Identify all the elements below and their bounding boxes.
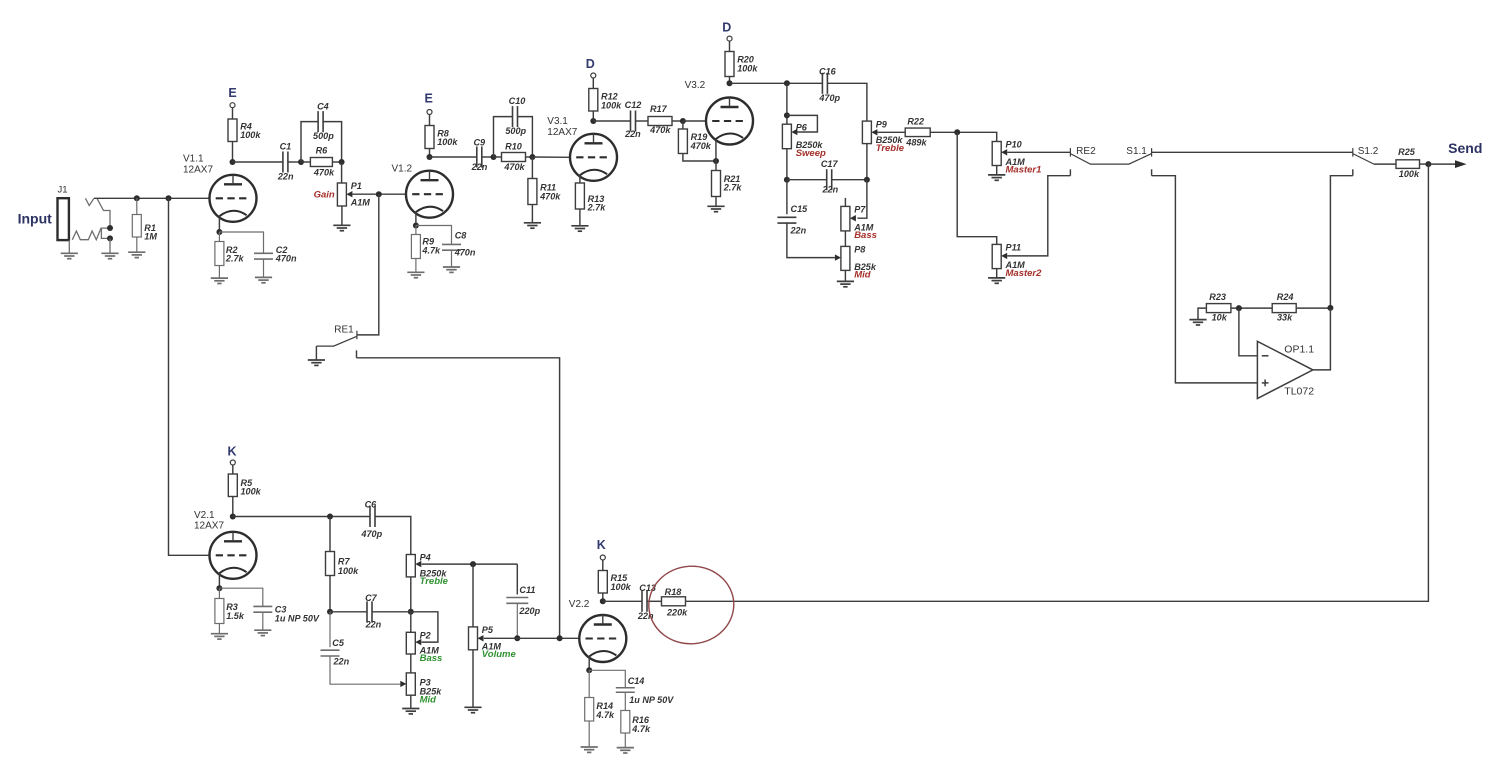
capacitor C10 [513, 106, 518, 127]
svg-text:Master1: Master1 [1006, 165, 1042, 176]
wire C2 to ground [263, 259, 265, 277]
resistor R5 [228, 474, 261, 497]
supply label K [227, 445, 236, 459]
capacitor C11 [506, 598, 528, 604]
wire R1 top lead [136, 198, 138, 214]
wire C17 to P9 bottom net [832, 179, 867, 181]
wire node to V3.1 grid [532, 156, 570, 158]
wire P9 wiper to R22 [877, 131, 905, 133]
potentiometer P1 [337, 181, 370, 207]
svg-text:100k: 100k [737, 63, 758, 73]
resistor R21 [712, 171, 743, 197]
node R17 out [680, 118, 686, 124]
wire volume net corner down to C11 [516, 564, 518, 594]
wire cathode to C14 [589, 670, 625, 687]
svg-text:C7: C7 [365, 593, 378, 603]
svg-text:RE2: RE2 [1076, 146, 1096, 157]
terminal K supply V2.2 [600, 555, 605, 560]
node V1.2 cathode [413, 223, 419, 229]
capacitor C3 [253, 606, 272, 612]
svg-text:RE1: RE1 [334, 324, 354, 335]
resistor R11 [528, 179, 561, 205]
wire C4 bridge left [301, 122, 318, 162]
svg-text:V3.2: V3.2 [685, 80, 706, 91]
resistor R12 [589, 89, 622, 112]
wire C14 to R16 [624, 692, 626, 710]
svg-text:100k: 100k [437, 137, 458, 147]
terminal E supply V1.1 [230, 103, 235, 108]
svg-text:C15: C15 [791, 204, 809, 214]
node send [1425, 161, 1431, 167]
svg-text:Mid: Mid [420, 694, 437, 705]
wire C3 to ground [262, 612, 264, 630]
potentiometer P9 [862, 119, 904, 154]
wire jack switch to ground [109, 238, 111, 253]
svg-text:Sweep: Sweep [796, 148, 826, 159]
wire cathode to C8 [416, 226, 452, 245]
svg-text:P5: P5 [482, 625, 494, 635]
wire feedback to inverting input [1239, 308, 1258, 356]
supply label E [228, 86, 236, 100]
op-amp plus sign [1262, 380, 1269, 387]
svg-text:R10: R10 [505, 142, 522, 152]
switch RE1 contact tick [356, 331, 358, 340]
wire K to R15 [602, 560, 604, 571]
potentiometer P3 [406, 673, 442, 706]
wire R1 bottom lead [136, 237, 138, 252]
wire P5 bottom to ground [472, 650, 474, 707]
svg-text:22n: 22n [624, 129, 641, 139]
wire C13 to R18 [647, 600, 662, 602]
svg-text:K: K [227, 445, 236, 459]
node jack switch A [107, 225, 113, 231]
wire input main [94, 197, 210, 199]
terminal D supply V3.2 [727, 36, 732, 41]
svg-text:V2.1: V2.1 [194, 510, 215, 521]
ground R2 [211, 278, 228, 283]
svg-text:Input: Input [18, 211, 53, 227]
svg-text:22n: 22n [277, 172, 294, 182]
highlight ellipse around R18 [646, 563, 736, 646]
ground R14 [581, 747, 598, 752]
switch RE1 open throw stub [356, 350, 358, 357]
wire R13 to ground [579, 209, 581, 226]
svg-text:R7: R7 [338, 557, 351, 567]
triode tube V1.1 [210, 175, 257, 222]
switch S1.1 contact tick [1151, 148, 1153, 157]
svg-text:500p: 500p [505, 126, 526, 136]
svg-text:C16: C16 [819, 67, 837, 77]
svg-text:A1M: A1M [350, 198, 371, 208]
wire P8 bottom to ground [844, 270, 846, 281]
wire S1.2 to R25 [1374, 163, 1396, 165]
wire R12 to plate node [592, 111, 594, 121]
wire node to R6 [301, 161, 310, 163]
wire C11 to grid line [516, 603, 518, 638]
wire P4 bottom to node [410, 577, 412, 612]
triode tube V1.2 [406, 171, 453, 218]
svg-text:C4: C4 [317, 101, 329, 111]
svg-text:2.7k: 2.7k [587, 202, 607, 212]
svg-text:Treble: Treble [876, 143, 905, 154]
wire plate to tone stack top [730, 82, 823, 84]
wire R23 to R24 [1231, 307, 1272, 309]
wire node to C7 [330, 611, 367, 613]
svg-text:100k: 100k [1399, 169, 1420, 179]
switch RE1 blade [316, 336, 357, 346]
svg-text:22n: 22n [821, 185, 838, 195]
wire plate node to C13 [603, 600, 642, 602]
svg-text:R23: R23 [1209, 292, 1226, 302]
supply label K 2 [597, 538, 606, 552]
resistor R16 [621, 711, 651, 734]
svg-text:P9: P9 [876, 119, 888, 129]
resistor R24 [1272, 292, 1296, 323]
wire R14 to ground [588, 721, 590, 747]
node V1.1 plate [230, 159, 236, 165]
capacitor C8 [442, 244, 461, 250]
wire R8 to plate node [429, 149, 431, 158]
svg-text:12AX7: 12AX7 [194, 520, 224, 531]
wire R17 to node [672, 120, 683, 122]
wire R21 to ground [715, 197, 717, 207]
ground C8 [443, 267, 460, 272]
node bass net low [408, 609, 414, 615]
svg-text:220p: 220p [518, 606, 540, 616]
op-amp OP1.1 TL072 [1257, 341, 1313, 398]
wire R3 to ground [218, 624, 220, 634]
wire cathode to R2 [218, 232, 220, 242]
svg-text:R18: R18 [665, 587, 683, 597]
svg-text:470k: 470k [690, 141, 712, 151]
wire V1.1 cathode lead [218, 216, 220, 232]
label RE1 [334, 324, 354, 335]
wire P2 bottom to P3 top [410, 654, 412, 673]
ground R3 [211, 634, 228, 639]
wire send arrow [1428, 163, 1456, 165]
terminal K supply V2.1 [230, 460, 235, 465]
potentiometer P4 [406, 553, 448, 587]
node V3.2 cathode net [713, 158, 719, 164]
triode tube V2.2 [579, 615, 626, 662]
wire R2 to ground [218, 266, 220, 279]
resistor R22 [905, 116, 930, 147]
node R10 out [529, 154, 535, 160]
J1 tip contact [85, 198, 94, 205]
svg-text:Send: Send [1448, 140, 1482, 156]
terminal E supply V1.2 [427, 110, 432, 115]
wire R20 to plate node [729, 77, 731, 84]
svg-text:P1: P1 [351, 181, 362, 191]
wire S1.1 throw to op-amp noninverting input [1152, 176, 1258, 383]
capacitor C5 [321, 650, 340, 656]
ground P1 [333, 225, 350, 230]
svg-text:P6: P6 [796, 122, 808, 132]
switch RE2 throw stub [1069, 169, 1071, 175]
node bass net [784, 177, 790, 183]
node volume top [470, 561, 476, 567]
capacitor C17 [827, 169, 832, 190]
svg-text:P7: P7 [854, 205, 866, 215]
ground P8 [837, 281, 854, 286]
svg-text:P11: P11 [1006, 243, 1022, 253]
capacitor C16 [822, 73, 827, 94]
wire C5 to P3 wiper [330, 656, 400, 684]
svg-text:12AX7: 12AX7 [183, 165, 213, 176]
wire cathode to C3 [219, 588, 262, 606]
wire node down to P1 [341, 162, 343, 183]
resistor R2 [215, 242, 245, 266]
node C9 out [491, 154, 497, 160]
resistor R3 [215, 599, 245, 624]
wire E to R4 [232, 108, 234, 119]
wire P6 bottom to node [786, 149, 788, 180]
capacitor C2 [254, 253, 273, 259]
svg-text:4.7k: 4.7k [421, 246, 441, 256]
wire node to C17 [787, 179, 827, 181]
wire node to R10 [494, 156, 502, 158]
wire plate node to C1 [233, 161, 283, 163]
supply label D [586, 57, 595, 71]
wire D to R12 [592, 78, 594, 89]
resistor R25 [1396, 147, 1420, 179]
op-amp minus sign [1262, 355, 1269, 357]
label Send [1448, 140, 1482, 156]
wire P6 wiper hook [787, 115, 818, 132]
svg-text:C10: C10 [509, 96, 526, 106]
wire P11 bottom to ground [996, 269, 998, 278]
resistor R15 [598, 571, 631, 594]
label V2.1 12AX7 [194, 510, 224, 532]
wire P7 top stub [844, 198, 846, 207]
wire cathode node to R21 [715, 161, 717, 171]
wire P10 wiper to RE2 [1007, 151, 1070, 153]
svg-text:C5: C5 [332, 638, 345, 648]
svg-text:470p: 470p [360, 529, 382, 539]
node R6 out [339, 159, 345, 165]
wire R24 to output node [1296, 307, 1330, 309]
wire R15 to plate node [602, 593, 604, 601]
supply label E 2 [425, 92, 433, 106]
ground C2 [255, 277, 272, 282]
wire R19 to cathode node [683, 154, 716, 162]
wire plate node to C6 [233, 516, 370, 518]
svg-text:S1.2: S1.2 [1358, 146, 1379, 157]
node V3.2 plate [727, 80, 733, 86]
svg-text:470k: 470k [503, 162, 525, 172]
wire P3 bottom to ground [410, 695, 412, 708]
wire C5 top lead [329, 612, 331, 647]
svg-text:470k: 470k [539, 192, 561, 202]
node V2.1 cathode [216, 585, 222, 591]
potentiometer P5 [469, 625, 517, 660]
svg-text:470p: 470p [818, 93, 840, 103]
label V2.2 [569, 599, 590, 610]
wire output node to op-amp output [1313, 308, 1331, 370]
wire V2.2 cathode lead [588, 656, 590, 670]
ground P5 [464, 707, 481, 712]
wire V3.1 cathode lead [579, 175, 581, 183]
switch RE2 contact tick [1069, 148, 1071, 157]
svg-text:TL072: TL072 [1284, 386, 1314, 398]
wire C12 to R17 [636, 120, 649, 122]
wire V3.2 cathode lead [715, 139, 717, 161]
ground R11 [524, 223, 541, 228]
svg-text:100k: 100k [240, 130, 261, 140]
wire RE1 to ground [315, 346, 317, 360]
svg-text:500p: 500p [313, 131, 334, 141]
switch S1.2 contact tick [1352, 148, 1354, 157]
resistor R9 [411, 235, 441, 259]
ground RE1 [308, 360, 325, 365]
wire P1 wiper to V1.2 grid [352, 193, 406, 195]
wire C16 to corner down P9 [827, 83, 867, 121]
node tone top [784, 80, 790, 86]
wire P2 wiper hook [411, 612, 438, 642]
ground R1 [128, 252, 145, 257]
svg-text:P10: P10 [1006, 140, 1022, 150]
wire C15 to P8 wiper [787, 223, 835, 258]
wire R25 to send node [1420, 163, 1429, 165]
wire P10 bottom to ground [996, 166, 998, 175]
switch RE2 S1.1 blade [1070, 154, 1151, 165]
wire P11 wiper to RE2 throw [1007, 176, 1070, 256]
svg-text:10k: 10k [1212, 313, 1228, 323]
svg-text:489k: 489k [905, 137, 927, 147]
svg-text:100k: 100k [611, 582, 632, 592]
svg-text:4.7k: 4.7k [595, 710, 615, 720]
wire node to V3.2 grid [683, 120, 706, 122]
wire master net down to P11 [957, 132, 997, 244]
wire tone node down to P6 [786, 83, 788, 124]
resistor R7 [326, 552, 360, 577]
potentiometer P2 [406, 631, 442, 665]
ground R9 [407, 272, 424, 277]
wire node down to R11 [531, 157, 533, 179]
svg-text:470k: 470k [649, 125, 671, 135]
svg-text:C8: C8 [455, 231, 468, 241]
wire C10 bridge right [518, 117, 533, 157]
resistor R14 [585, 698, 615, 722]
node master net [954, 129, 960, 135]
svg-text:C17: C17 [821, 159, 839, 169]
wire P5 wiper to V2.2 grid [484, 637, 580, 639]
wire R10 to node [526, 156, 533, 158]
svg-text:2.7k: 2.7k [225, 253, 245, 263]
capacitor C13 [642, 591, 647, 612]
wire V1.2 cathode lead [415, 212, 417, 226]
wire C6 to P4 [375, 517, 411, 555]
svg-text:V1.2: V1.2 [392, 164, 413, 175]
svg-text:C11: C11 [519, 585, 535, 595]
capacitor C15 [777, 217, 796, 223]
svg-text:R25: R25 [1398, 147, 1416, 157]
node R1 top [134, 195, 140, 201]
svg-text:E: E [228, 86, 236, 100]
wire R16 to ground [624, 733, 626, 748]
svg-text:Volume: Volume [482, 649, 517, 660]
potentiometer P10 [992, 140, 1041, 176]
wire P4 wiper to volume net [422, 563, 518, 565]
ground P11 [988, 278, 1005, 283]
triode tube V2.1 [210, 532, 257, 579]
wire R7 top lead [329, 517, 331, 552]
node C11 bottom [514, 635, 520, 641]
wire cathode to R9 [415, 226, 417, 235]
label TL072 [1284, 386, 1314, 398]
ground R16 [617, 748, 634, 753]
resistor R23 [1206, 292, 1231, 323]
wire R23 to ground [1198, 308, 1206, 319]
ground J1 sleeve [61, 253, 78, 258]
switch S1.1 throw stub [1151, 169, 1153, 175]
wire RE1 throw to V2.2 grid [357, 358, 560, 639]
svg-text:D: D [586, 57, 595, 71]
wire input node down to V2.1 grid [169, 198, 210, 555]
wire D to R20 [729, 41, 731, 51]
capacitor C9 [477, 147, 482, 168]
wire C8 to ground [451, 250, 453, 267]
wire S1.1 to S1.2 [1152, 151, 1353, 153]
node treble bottom [864, 177, 870, 183]
connector J1 label [58, 185, 68, 196]
svg-text:D: D [722, 21, 731, 35]
triode tube V3.2 [706, 98, 753, 145]
resistor R1 [132, 215, 157, 242]
node V2.1 plate [230, 514, 236, 520]
switch S1.2 throw stub [1352, 169, 1354, 175]
svg-text:Gain: Gain [314, 190, 335, 201]
svg-text:V3.1: V3.1 [547, 116, 568, 127]
wire R11 to ground [531, 205, 533, 223]
svg-text:Mid: Mid [854, 270, 871, 281]
wire R4 to plate node [232, 142, 234, 163]
svg-text:E: E [425, 92, 433, 106]
wire C1 to node [288, 161, 301, 163]
wire node down to P7 wiper [857, 180, 867, 219]
resistor R4 [228, 119, 261, 142]
capacitor C14 [616, 688, 635, 693]
svg-text:220k: 220k [666, 608, 688, 618]
svg-text:1u NP 50V: 1u NP 50V [275, 614, 320, 624]
label V1.1 12AX7 [183, 154, 213, 176]
svg-text:R6: R6 [316, 146, 329, 156]
svg-text:R22: R22 [907, 116, 924, 126]
resistor R13 [575, 183, 606, 212]
svg-text:C12: C12 [625, 100, 642, 110]
resistor R18 [662, 587, 689, 618]
svg-text:12AX7: 12AX7 [547, 127, 577, 138]
svg-text:100k: 100k [241, 487, 262, 497]
svg-text:J1: J1 [58, 185, 68, 196]
send output arrow [1455, 160, 1467, 168]
ground P10 [988, 175, 1005, 180]
switch S1.2 blade [1353, 154, 1374, 165]
svg-text:K: K [597, 538, 606, 552]
svg-text:100k: 100k [601, 100, 622, 110]
wire C9 to node [482, 156, 494, 158]
label S1.1 [1126, 146, 1147, 157]
wire C10 bridge left [494, 117, 513, 157]
wire C4 bridge right [323, 122, 342, 162]
node op out net [1327, 305, 1333, 311]
svg-text:P8: P8 [854, 245, 866, 255]
capacitor C4 [318, 111, 323, 132]
svg-text:22n: 22n [365, 620, 382, 630]
ground P3 [402, 709, 419, 714]
ground R13 [571, 226, 588, 231]
supply label D 2 [722, 21, 731, 35]
